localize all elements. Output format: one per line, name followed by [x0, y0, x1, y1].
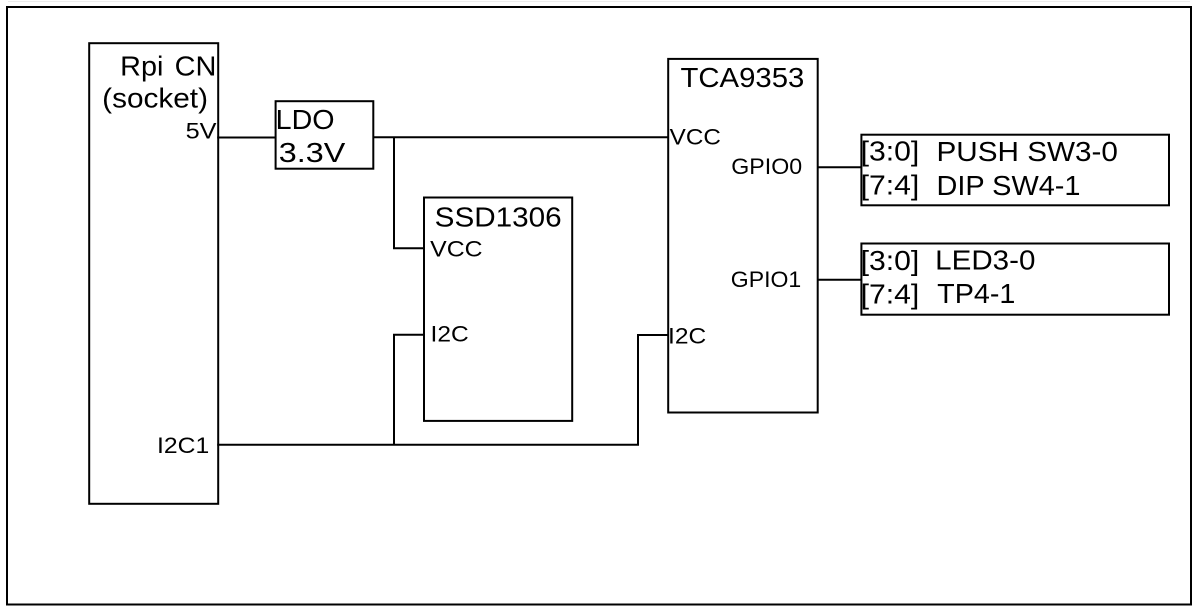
block Rpi CN (socket)	[89, 43, 218, 504]
wire 5V RpiCN to LDO	[217, 137, 275, 139]
svg-text:[3:0]: [3:0]	[861, 245, 920, 276]
svg-text:TP4-1: TP4-1	[937, 278, 1015, 309]
wire GPIO0 to switch block	[817, 166, 861, 168]
wire I2C1 bus RpiCN to TCA9353 I2C	[217, 335, 668, 445]
svg-text:PUSH SW3-0: PUSH SW3-0	[937, 136, 1118, 167]
block LDO 3.3V	[276, 101, 374, 169]
block TCA9353	[668, 59, 818, 413]
svg-text:Rpi: Rpi	[120, 51, 163, 82]
wire GPIO1 to LED block	[817, 279, 861, 281]
svg-text:GPIO0: GPIO0	[731, 154, 802, 179]
svg-text:[7:4]: [7:4]	[861, 170, 920, 201]
svg-text:LDO: LDO	[276, 104, 335, 135]
svg-text:3.3V: 3.3V	[279, 137, 346, 168]
wire 3.3V branch to SSD1306 VCC	[394, 137, 424, 248]
wire SSD1306 I2C down to I2C1 bus	[394, 335, 424, 445]
svg-text:VCC: VCC	[430, 237, 483, 262]
wire 3.3V LDO to TCA9353 VCC	[373, 136, 669, 138]
faint top edge artifact	[8, 1, 1190, 3]
svg-text:I2C: I2C	[668, 324, 706, 349]
svg-text:SSD1306: SSD1306	[435, 202, 562, 233]
svg-text:[3:0]: [3:0]	[861, 136, 920, 167]
svg-text:DIP SW4-1: DIP SW4-1	[937, 170, 1081, 201]
svg-text:I2C: I2C	[431, 322, 469, 347]
block LED/TP	[861, 244, 1169, 315]
svg-text:VCC: VCC	[670, 125, 721, 150]
svg-text:LED3-0: LED3-0	[935, 245, 1035, 276]
svg-text:[7:4]: [7:4]	[861, 279, 920, 310]
svg-text:GPIO1: GPIO1	[731, 267, 801, 292]
block SSD1306	[424, 198, 572, 421]
svg-text:I2C1: I2C1	[157, 433, 209, 458]
svg-text:(socket): (socket)	[102, 82, 208, 113]
svg-text:TCA9353: TCA9353	[681, 62, 805, 93]
svg-text:5V: 5V	[186, 119, 217, 144]
svg-text:CN: CN	[175, 51, 217, 82]
block PUSH/DIP switches	[861, 135, 1169, 206]
